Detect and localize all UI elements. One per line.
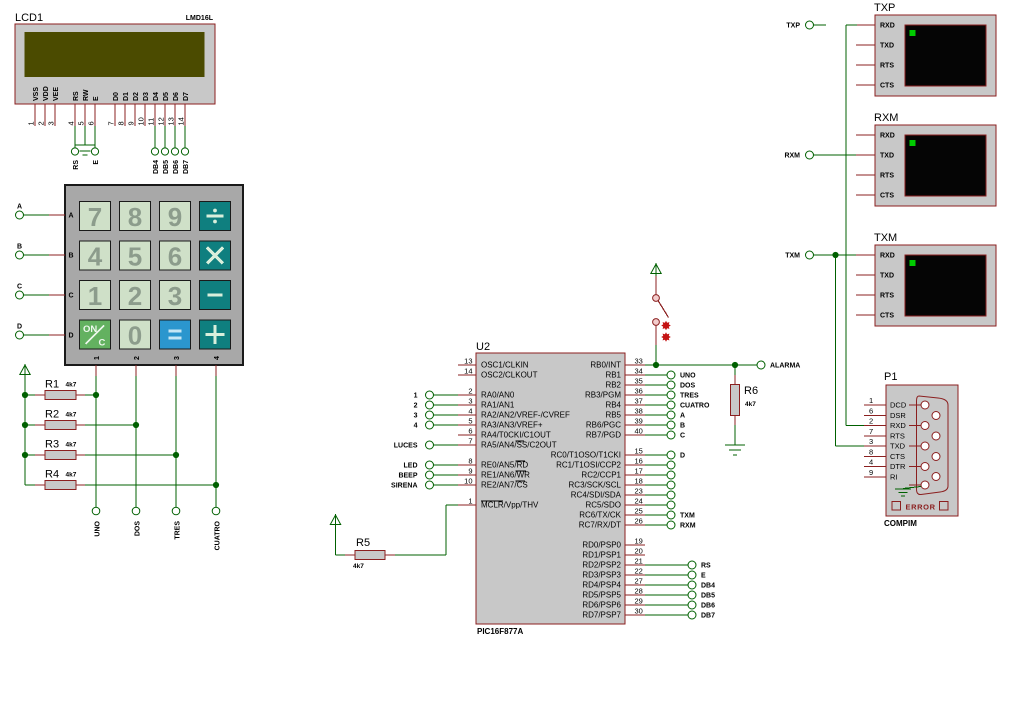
keypad button plus xyxy=(200,320,231,349)
svg-text:SIRENA: SIRENA xyxy=(391,483,417,490)
wire terminal 1 to U2 xyxy=(434,394,459,396)
svg-text:DOS: DOS xyxy=(135,521,142,537)
svg-text:33: 33 xyxy=(635,357,643,366)
svg-text:8: 8 xyxy=(869,448,873,457)
terminal TXP xyxy=(786,21,813,30)
P1 internal ground symbol xyxy=(895,489,911,496)
svg-text:1: 1 xyxy=(94,356,101,360)
svg-text:8: 8 xyxy=(117,121,126,125)
LCD1 pin 8 (D1) xyxy=(117,92,131,126)
U2 pin 18 (RC3/SCK/SCL) xyxy=(569,477,645,490)
keypad button 9 xyxy=(160,202,191,233)
U2 pin 30 (RD7/PSP7) xyxy=(582,607,645,620)
terminal DB4 xyxy=(688,581,715,590)
svg-text:DOS: DOS xyxy=(680,383,696,390)
P1 DB9 socket (left column) xyxy=(921,463,929,471)
svg-text:4: 4 xyxy=(214,356,221,360)
terminal (unlabeled) xyxy=(667,461,675,469)
svg-text:7: 7 xyxy=(88,202,102,232)
svg-text:CUATRO: CUATRO xyxy=(680,403,710,410)
resistor R1 xyxy=(25,391,85,400)
terminal DB5 xyxy=(161,148,170,174)
svg-text:UNO: UNO xyxy=(95,520,102,536)
terminal RXM xyxy=(667,521,696,530)
wire terminal SIRENA to U2 xyxy=(434,484,459,486)
terminal DB7 xyxy=(688,611,715,620)
U2 pin 15 (RC0/T1OSO/T1CKI) xyxy=(551,447,645,460)
power symbol above switch xyxy=(651,263,661,276)
svg-text:3: 3 xyxy=(869,437,873,446)
wire terminal D to keypad xyxy=(24,334,50,336)
svg-text:RC6/TX/CK: RC6/TX/CK xyxy=(579,511,621,520)
wire U2 to terminal DB6 xyxy=(645,604,688,606)
terminal LUCES xyxy=(394,441,434,450)
P1 pin 8 (CTS) xyxy=(864,448,905,462)
terminal CUATRO xyxy=(667,401,710,410)
svg-text:D4: D4 xyxy=(153,92,160,101)
svg-text:C: C xyxy=(680,433,685,440)
keypad button 5 xyxy=(120,241,151,272)
svg-text:RB4: RB4 xyxy=(605,401,621,410)
switch actuator marker (red star upper) xyxy=(661,321,671,331)
svg-text:RS: RS xyxy=(701,563,711,570)
U2 pin 34 (RB1) xyxy=(605,367,645,380)
svg-text:C: C xyxy=(17,284,22,291)
TXP pin RTS xyxy=(856,63,894,70)
svg-text:2: 2 xyxy=(37,121,46,125)
svg-text:RB7/PGD: RB7/PGD xyxy=(586,431,621,440)
connector P1 (COMPIM DB9) xyxy=(864,371,958,528)
svg-text:35: 35 xyxy=(635,377,643,386)
P1 DB9 socket (right column) xyxy=(932,432,940,440)
wire keypad column 2 down to terminal DOS xyxy=(135,376,137,507)
svg-text:RE2/AN7/CS: RE2/AN7/CS xyxy=(481,481,528,490)
wire keypad column 3 down to terminal TRES xyxy=(175,376,177,507)
svg-text:ALARMA: ALARMA xyxy=(770,363,800,370)
svg-text:RD5/PSP5: RD5/PSP5 xyxy=(582,591,621,600)
terminal (unlabeled) xyxy=(667,491,675,499)
svg-text:RXD: RXD xyxy=(880,23,895,30)
svg-text:UNO: UNO xyxy=(680,373,696,380)
keypad button divide xyxy=(200,202,231,231)
wire terminal BEEP to U2 xyxy=(434,474,459,476)
svg-text:4: 4 xyxy=(414,423,418,430)
svg-text:13: 13 xyxy=(167,117,176,125)
svg-text:2: 2 xyxy=(468,387,472,396)
svg-text:DB5: DB5 xyxy=(701,593,715,600)
svg-text:4k7: 4k7 xyxy=(353,563,364,570)
wire U2 to terminal DB5 xyxy=(645,594,688,596)
svg-text:DCD: DCD xyxy=(890,401,907,410)
svg-text:40: 40 xyxy=(635,427,643,436)
svg-text:9: 9 xyxy=(168,202,182,232)
power symbol above R1-R4 rail xyxy=(20,364,30,377)
svg-text:10: 10 xyxy=(464,477,472,486)
terminal TRES xyxy=(667,391,699,400)
svg-text:TXD: TXD xyxy=(880,43,894,50)
U2 pin 16 (RC1/T1OSI/CCP2) xyxy=(556,457,645,470)
TXM pin CTS xyxy=(856,313,894,320)
svg-text:CTS: CTS xyxy=(890,452,905,461)
svg-text:E: E xyxy=(93,160,100,165)
terminal UNO xyxy=(667,371,696,380)
svg-text:RA0/AN0: RA0/AN0 xyxy=(481,391,515,400)
svg-text:LMD16L: LMD16L xyxy=(186,15,214,22)
terminal SIRENA xyxy=(391,481,433,490)
wire U2 pin 33 (RB0/INT) to ALARMA xyxy=(645,364,757,366)
svg-text:RB3/PGM: RB3/PGM xyxy=(585,391,621,400)
svg-text:TRES: TRES xyxy=(175,521,182,540)
switch SW (SPST) xyxy=(653,276,669,325)
svg-text:DB4: DB4 xyxy=(701,583,715,590)
U2 overline MCLR on pin 1 xyxy=(481,500,503,502)
P1 ERROR indicator left square xyxy=(892,502,901,511)
terminal UNO xyxy=(92,507,101,536)
svg-text:36: 36 xyxy=(635,387,643,396)
keypad column pin stub xyxy=(135,365,137,376)
terminal D xyxy=(16,324,24,340)
svg-text:39: 39 xyxy=(635,417,643,426)
svg-text:TXM: TXM xyxy=(874,232,897,244)
U2 pin 8 (RE0/AN5/RD) xyxy=(458,457,528,470)
wire terminal LUCES to U2 xyxy=(434,444,459,446)
svg-text:1: 1 xyxy=(869,396,873,405)
RXM pin CTS xyxy=(856,193,894,200)
wire U2 pin 1 (MCLR) to R5 xyxy=(395,505,458,555)
svg-text:RTS: RTS xyxy=(880,173,894,180)
svg-text:RD1/PSP1: RD1/PSP1 xyxy=(582,551,621,560)
svg-text:RC4/SDI/SDA: RC4/SDI/SDA xyxy=(571,491,622,500)
svg-text:RXD: RXD xyxy=(890,421,906,430)
terminal CUATRO xyxy=(212,507,221,550)
LCD1 pin 5 (RW) xyxy=(77,89,91,126)
wire terminal TXP (stub with gap) xyxy=(814,24,827,26)
svg-text:TXD: TXD xyxy=(880,153,894,160)
terminal 4 (node 4) xyxy=(414,421,434,430)
P1 DB9 socket (left column) xyxy=(921,481,929,489)
svg-text:7: 7 xyxy=(468,437,472,446)
svg-text:14: 14 xyxy=(177,117,186,125)
svg-text:10: 10 xyxy=(137,117,146,125)
keypad button 7 xyxy=(80,202,111,233)
P1 DB9 socket (left column) xyxy=(921,442,929,450)
svg-text:RE1/AN6/WR: RE1/AN6/WR xyxy=(481,471,530,480)
svg-text:VEE: VEE xyxy=(53,87,60,101)
U2 pin 25 (RC6/TX/CK) xyxy=(579,507,645,520)
svg-text:RC7/RX/DT: RC7/RX/DT xyxy=(579,521,621,530)
keypad row pin stub xyxy=(49,334,65,336)
P1 DB9 pin link xyxy=(909,484,921,486)
wire U2 to terminal CUATRO xyxy=(645,404,667,406)
terminal ALARMA xyxy=(757,361,800,370)
P1 internal ground wire xyxy=(903,487,921,489)
keypad button 8 xyxy=(120,202,151,233)
svg-text:ON: ON xyxy=(83,324,97,335)
svg-text:DB7: DB7 xyxy=(701,613,715,620)
TXP pin CTS xyxy=(856,83,894,90)
LCD1 pin 4 (RS) xyxy=(67,91,81,126)
svg-text:RB6/PGC: RB6/PGC xyxy=(586,421,621,430)
RXM body xyxy=(875,125,996,206)
svg-text:29: 29 xyxy=(635,597,643,606)
svg-text:3: 3 xyxy=(168,281,182,311)
svg-text:4k7: 4k7 xyxy=(66,472,77,479)
terminal DOS xyxy=(667,381,696,390)
svg-text:TXP: TXP xyxy=(874,2,895,14)
P1 DB9 pin link xyxy=(909,404,921,406)
svg-text:17: 17 xyxy=(635,467,643,476)
svg-text:RB1: RB1 xyxy=(605,371,621,380)
svg-text:RS: RS xyxy=(73,160,80,170)
wire U2 to terminal B xyxy=(645,424,667,426)
svg-text:LCD1: LCD1 xyxy=(15,12,43,24)
terminal TXM xyxy=(667,511,695,520)
power symbol above R5 xyxy=(330,514,340,527)
svg-text:2: 2 xyxy=(128,281,142,311)
svg-text:23: 23 xyxy=(635,487,643,496)
wire left rail R1-R4 xyxy=(24,376,26,486)
svg-text:B: B xyxy=(680,423,685,430)
terminal DB7 xyxy=(181,148,190,174)
terminal A xyxy=(667,411,685,420)
svg-text:D0: D0 xyxy=(113,92,120,101)
RXM pin RTS xyxy=(856,173,894,180)
wire U2 to terminal TRES xyxy=(645,394,667,396)
terminal TXM xyxy=(785,251,813,260)
svg-text:37: 37 xyxy=(635,397,643,406)
wire terminal 2 to U2 xyxy=(434,404,459,406)
U2 pin 5 (RA3/AN3/VREF+) xyxy=(458,417,543,430)
svg-text:2: 2 xyxy=(414,403,418,410)
svg-text:D2: D2 xyxy=(133,92,140,101)
svg-text:18: 18 xyxy=(635,477,643,486)
svg-text:4: 4 xyxy=(67,121,76,125)
U2 pin 33 (RB0/INT) xyxy=(590,357,645,370)
LCD1 pin 14 (D7) xyxy=(177,92,191,126)
svg-text:26: 26 xyxy=(635,517,643,526)
wire U2 to terminal TXM xyxy=(645,514,667,516)
svg-text:1: 1 xyxy=(468,497,472,506)
svg-text:RXD: RXD xyxy=(880,253,895,260)
svg-text:R5: R5 xyxy=(356,537,370,549)
svg-text:4: 4 xyxy=(468,407,472,416)
terminal 2 (node 2) xyxy=(414,401,434,410)
junction R1 column 1 xyxy=(93,392,99,398)
svg-text:RXM: RXM xyxy=(874,112,898,124)
svg-text:6: 6 xyxy=(869,407,873,416)
keypad row pin stub xyxy=(49,254,65,256)
svg-text:5: 5 xyxy=(77,121,86,125)
svg-text:RB0/INT: RB0/INT xyxy=(590,361,621,370)
svg-text:38: 38 xyxy=(635,407,643,416)
wire U2 to terminal DB4 xyxy=(645,584,688,586)
P1 DB9 socket (right column) xyxy=(932,453,940,461)
svg-text:13: 13 xyxy=(464,357,472,366)
U2 pin 38 (RB5) xyxy=(605,407,645,420)
wire U2 to terminal UNO xyxy=(645,374,667,376)
wire LCD DB6 down xyxy=(174,126,176,148)
ground symbol below R6 xyxy=(725,445,745,455)
svg-text:CTS: CTS xyxy=(880,193,894,200)
P1 DB9 pin link xyxy=(909,445,921,447)
wire terminal LED to U2 xyxy=(434,464,459,466)
svg-text:RW: RW xyxy=(83,89,90,101)
svg-text:VSS: VSS xyxy=(33,87,40,101)
terminal A xyxy=(16,204,24,220)
svg-text:DB7: DB7 xyxy=(183,160,190,174)
svg-text:RD0/PSP0: RD0/PSP0 xyxy=(582,541,621,550)
resistor R5 xyxy=(345,551,395,560)
svg-text:RXD: RXD xyxy=(880,133,895,140)
svg-text:7: 7 xyxy=(869,427,873,436)
svg-text:25: 25 xyxy=(635,507,643,516)
svg-text:RTS: RTS xyxy=(880,63,894,70)
wire U2 to terminal DB7 xyxy=(645,614,688,616)
TXM body xyxy=(875,245,996,326)
ground bar under RW (top) xyxy=(75,144,95,146)
svg-text:C: C xyxy=(99,338,106,349)
svg-text:RB5: RB5 xyxy=(605,411,621,420)
svg-text:3: 3 xyxy=(468,397,472,406)
wire terminal RXM to RXM TXD xyxy=(814,154,857,156)
svg-text:19: 19 xyxy=(635,537,643,546)
resistor R6 xyxy=(731,365,740,425)
P1 DB9 shell xyxy=(917,396,949,495)
svg-text:CTS: CTS xyxy=(880,313,894,320)
svg-text:OSC2/CLKOUT: OSC2/CLKOUT xyxy=(481,371,538,380)
svg-text:TXD: TXD xyxy=(890,442,906,451)
svg-text:RD6/PSP6: RD6/PSP6 xyxy=(582,601,621,610)
svg-text:RD7/PSP7: RD7/PSP7 xyxy=(582,611,621,620)
wire terminal A to keypad xyxy=(24,214,50,216)
wire U2 to terminal DOS xyxy=(645,384,667,386)
svg-text:RTS: RTS xyxy=(890,432,905,441)
P1 DB9 pin link xyxy=(909,466,921,468)
svg-text:14: 14 xyxy=(464,367,472,376)
ground bar under RW (bottom) xyxy=(83,154,88,156)
svg-text:9: 9 xyxy=(869,468,873,477)
svg-text:E: E xyxy=(93,96,100,101)
LCD1 pin 9 (D2) xyxy=(127,92,141,126)
svg-text:RA3/AN3/VREF+: RA3/AN3/VREF+ xyxy=(481,421,543,430)
svg-text:C: C xyxy=(69,293,74,300)
svg-text:CUATRO: CUATRO xyxy=(215,520,222,550)
LCD1 pin 12 (D5) xyxy=(157,92,171,126)
svg-text:RD4/PSP4: RD4/PSP4 xyxy=(582,581,621,590)
svg-text:VDD: VDD xyxy=(43,86,50,101)
svg-text:3: 3 xyxy=(47,121,56,125)
svg-text:7: 7 xyxy=(107,121,116,125)
keypad row pin stub xyxy=(49,294,65,296)
svg-text:12: 12 xyxy=(157,117,166,125)
wire U2 to terminal RS xyxy=(645,564,688,566)
svg-text:RE0/AN5/RD: RE0/AN5/RD xyxy=(481,461,528,470)
junction left rail at R3 xyxy=(22,452,28,458)
TXP screen xyxy=(905,25,986,86)
U2 pin 29 (RD6/PSP6) xyxy=(582,597,645,610)
LCD1 screen xyxy=(25,32,205,77)
svg-text:D: D xyxy=(680,453,685,460)
wire U2 to terminal E xyxy=(645,574,688,576)
svg-text:2: 2 xyxy=(134,356,141,360)
LCD display LCD1 (LMD16L) xyxy=(15,12,215,126)
TXM pin RXD xyxy=(856,253,895,260)
keypad column pin stub xyxy=(215,365,217,376)
terminal E xyxy=(688,571,706,580)
svg-text:5: 5 xyxy=(128,242,142,272)
terminal D xyxy=(667,451,685,460)
terminal DB6 xyxy=(688,601,715,610)
svg-text:24: 24 xyxy=(635,497,643,506)
TXM cursor xyxy=(910,260,916,266)
LCD1 pin 6 (E) xyxy=(87,96,101,126)
wire terminal B to keypad xyxy=(24,254,50,256)
wire LCD E pin 6 down to E terminal xyxy=(94,126,96,148)
wire R3 to keypad column 3 xyxy=(85,454,176,456)
terminal 3 (node 3) xyxy=(414,411,434,420)
svg-text:DB6: DB6 xyxy=(701,603,715,610)
terminal DB4 xyxy=(151,148,160,174)
svg-text:27: 27 xyxy=(635,577,643,586)
svg-text:RC5/SDO: RC5/SDO xyxy=(585,501,621,510)
U2 pin 9 (RE1/AN6/WR) xyxy=(458,467,530,480)
keypad button equals xyxy=(160,320,191,349)
U2 pin 1 (MCLR/Vpp/THV) xyxy=(458,497,539,510)
svg-text:DB5: DB5 xyxy=(163,160,170,174)
U2 pin 37 (RB4) xyxy=(605,397,645,410)
keypad button multiply xyxy=(200,241,231,270)
terminal LED xyxy=(404,461,434,470)
svg-text:3: 3 xyxy=(174,356,181,360)
P1 body xyxy=(886,385,958,516)
TXM pin TXD xyxy=(856,273,894,280)
P1 pin 1 (DCD) xyxy=(864,396,907,410)
svg-text:TXM: TXM xyxy=(680,513,695,520)
keypad button 3 xyxy=(160,281,191,312)
svg-text:4: 4 xyxy=(88,242,103,272)
U2 pin 19 (RD0/PSP0) xyxy=(582,537,645,550)
RXM pin TXD xyxy=(856,153,894,160)
wire LCD DB4 down xyxy=(154,126,156,148)
switch actuator marker (red star lower) xyxy=(661,332,671,342)
svg-text:DB6: DB6 xyxy=(173,160,180,174)
TXM pin RTS xyxy=(856,293,894,300)
resistor R3 xyxy=(25,451,85,460)
LCD1 pin 3 (VEE) xyxy=(47,87,61,126)
svg-text:16: 16 xyxy=(635,457,643,466)
svg-text:RXM: RXM xyxy=(680,523,696,530)
U2 pin 23 (RC4/SDI/SDA) xyxy=(571,487,645,500)
junction R6 top xyxy=(732,362,738,368)
svg-text:RA2/AN2/VREF-/CVREF: RA2/AN2/VREF-/CVREF xyxy=(481,411,570,420)
svg-text:R1: R1 xyxy=(45,379,59,391)
RXM cursor xyxy=(910,140,916,146)
svg-text:RS: RS xyxy=(73,91,80,101)
terminal C xyxy=(16,284,24,300)
svg-text:1: 1 xyxy=(414,393,418,400)
RXM pin RXD xyxy=(856,133,895,140)
junction R2 column 2 xyxy=(133,422,139,428)
wire keypad column 1 down to terminal UNO xyxy=(95,376,97,507)
terminal (unlabeled) xyxy=(667,501,675,509)
wire terminal 3 to U2 xyxy=(434,414,459,416)
LCD1 body xyxy=(15,24,215,104)
svg-text:A: A xyxy=(69,213,74,220)
svg-text:4k7: 4k7 xyxy=(66,442,77,449)
U2 pin 26 (RC7/RX/DT) xyxy=(579,517,645,530)
svg-text:MCLR/Vpp/THV: MCLR/Vpp/THV xyxy=(481,501,539,510)
svg-text:R6: R6 xyxy=(744,385,758,397)
